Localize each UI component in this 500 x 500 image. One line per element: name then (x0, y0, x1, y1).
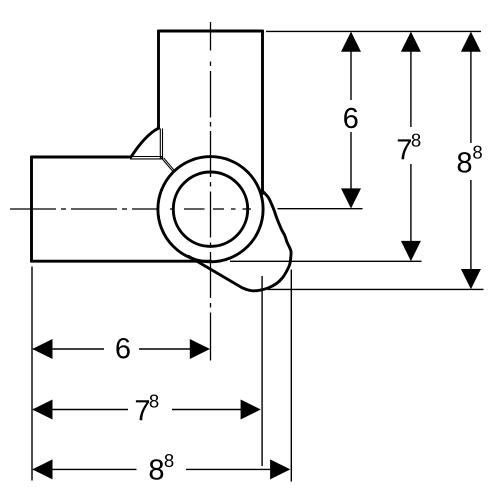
dimension 6 vertical bottom arrow (341, 188, 361, 208)
horizontal pipe left edge (30, 157, 33, 261)
vertical centerline (210, 22, 212, 361)
dimension 6 vertical line (350, 33, 352, 207)
top extension line (266, 30, 481, 32)
horizontal pipe bottom edge (32, 260, 212, 263)
dimension 8.8 horizontal left arrow (32, 459, 52, 479)
dimension 7.8 horizontal label (136, 394, 158, 420)
socket weld edge diagonal double line (161, 157, 176, 171)
dimension 7.8 vertical line (410, 33, 412, 259)
socket inner circle (173, 172, 247, 246)
dimension 7.8 horizontal left arrow (32, 400, 52, 420)
dimension 6 horizontal label (116, 338, 129, 359)
left extension line (31, 267, 33, 481)
extension line at centerline right (dim 6 vertical) (278, 208, 363, 210)
vertical pipe right edge (261, 31, 264, 194)
vertical pipe top edge (159, 30, 263, 33)
extension line at lobe rightmost (dim 8.8 horizontal) (290, 270, 292, 482)
socket outer circle (158, 157, 263, 262)
socket weld edge vertical double line (160, 128, 162, 158)
dimension 7.8 vertical bottom arrow (401, 241, 421, 261)
dimension 6 vertical top arrow (341, 32, 361, 52)
dimension 8.8 horizontal label (150, 454, 174, 480)
dimension 8.8 vertical line (470, 33, 472, 287)
dimension 8.8 vertical bottom arrow (461, 269, 481, 289)
dimension 6 horizontal line (33, 348, 208, 350)
dimension 7.8 vertical label (398, 134, 421, 160)
fillet curve at pipe junction (131, 128, 159, 157)
extension line at pipe bottom right (dim 7.8 vertical) (230, 260, 422, 262)
extension line at lobe bottom (dim 8.8 vertical) (268, 288, 484, 290)
vertical pipe left edge (157, 31, 160, 128)
dimension 6 horizontal left arrow (32, 339, 52, 359)
dimension 7.8 horizontal line (33, 409, 259, 411)
dimension 8.8 horizontal right arrow (270, 459, 290, 479)
dimension 8.8 vertical label (458, 146, 482, 173)
dimension 7.8 horizontal right arrow (241, 400, 261, 420)
dimension 6 horizontal right arrow (190, 339, 210, 359)
socket weld edge horizontal double line (130, 157, 163, 159)
dimension 6 vertical label (344, 108, 357, 129)
oblique branch lobe outline (189, 191, 292, 291)
dimension 7.8 vertical top arrow (401, 32, 421, 52)
extension line below lobe right (dim 7.8 horizontal) (261, 276, 263, 466)
horizontal centerline (10, 208, 251, 210)
horizontal pipe top edge (32, 156, 131, 159)
dimension 8.8 horizontal line (33, 468, 289, 470)
dimension 8.8 vertical top arrow (461, 32, 481, 52)
